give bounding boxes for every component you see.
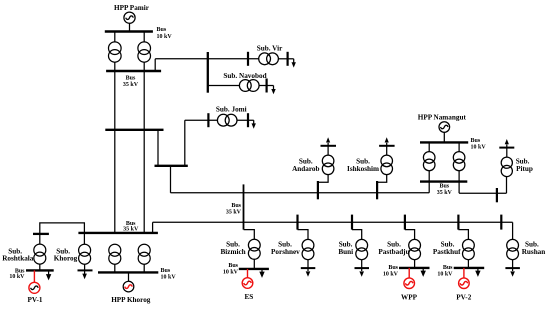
wire gen Pamir to bus [129, 23, 131, 31]
wire transformer T1 to bus35 Namangut [428, 171, 430, 182]
generator PV-2 [459, 278, 470, 289]
svg-text:PV-1: PV-1 [27, 296, 42, 304]
feeder wire Pamir to Khorog left [114, 71, 116, 233]
svg-text:WPP: WPP [401, 294, 418, 302]
label Bus 10 kV Roshtkala [9, 268, 25, 280]
svg-text:10 kV: 10 kV [161, 275, 177, 281]
tick Jomi right [247, 113, 249, 127]
wire jumper Khorog to Roshtkala [40, 223, 85, 234]
transformer Sub. Pastbadju [409, 239, 421, 259]
wire Ishkoshim elbow [377, 175, 387, 183]
svg-text:10 kV: 10 kV [437, 271, 453, 277]
svg-text:Bus: Bus [228, 263, 238, 269]
svg-text:Buni: Buni [338, 248, 353, 256]
load arrow Sub. Navobod [271, 86, 275, 95]
tick Andarob [317, 181, 319, 199]
dash Pitup [499, 147, 514, 149]
transformer Sub. Navobod [239, 80, 259, 92]
svg-text:Bizmich: Bizmich [221, 248, 246, 256]
svg-text:10 kV: 10 kV [9, 274, 25, 280]
label Sub. Pastbadju [378, 240, 409, 256]
feeder wire Pamir to Khorog right [143, 71, 145, 233]
svg-text:Pitup: Pitup [516, 165, 533, 173]
label Sub. Pitup [516, 158, 533, 173]
wire bar B down to trunk1 [170, 166, 172, 193]
transformer Sub. Roshtkala [34, 244, 46, 264]
wire Bizmich to bus10 [253, 259, 255, 269]
bus 10 kV Pastkhuf [454, 267, 485, 269]
svg-text:35 kV: 35 kV [226, 209, 242, 215]
wire Namangut left leg to trunk1 [428, 182, 430, 193]
tick Rushan [500, 215, 502, 230]
label Sub. Roshtkala [2, 247, 34, 262]
transformer Sub. Pastkhuf [463, 239, 475, 259]
wire T2 HPP Khorog to bus10 [143, 264, 145, 272]
wire Pastkhuf elbow [458, 230, 468, 240]
svg-text:HPP Namangut: HPP Namangut [418, 114, 467, 122]
wire Bizmich elbow [244, 230, 255, 240]
wire bus10 to transformer T1 Namangut [428, 142, 430, 151]
label Sub. Bizmich [221, 240, 246, 256]
load arrow Pastbadju [421, 268, 426, 277]
label Bus 35 kV Khorog [123, 221, 139, 233]
svg-text:HPP Pamir: HPP Pamir [114, 4, 150, 12]
transformer Sub. Rushan [507, 239, 519, 259]
svg-text:Bus: Bus [443, 265, 453, 271]
generator ES [242, 278, 253, 289]
tick Buni [351, 215, 353, 230]
svg-text:35 kV: 35 kV [123, 82, 139, 88]
generator HPP Pamir [124, 12, 135, 23]
transformer Sub. Khorog [79, 244, 91, 264]
transformer Sub. Porshnev [302, 239, 314, 259]
wire Ishkoshim up [386, 143, 388, 155]
label Sub. Buni [338, 240, 353, 256]
dash Sub. Khorog [78, 269, 93, 271]
transformer Sub. Buni [356, 239, 368, 259]
label Sub. Andarob [292, 157, 319, 173]
label Bus 10 kV Pamir [157, 27, 173, 40]
wire PV-2 stub [463, 268, 465, 278]
generator WPP [404, 278, 415, 289]
svg-text:HPP Khorog: HPP Khorog [111, 296, 151, 304]
tick Ishkoshim [376, 181, 378, 199]
dash Buni [355, 267, 370, 269]
label Bus 10 kV Bizmich [223, 263, 239, 276]
wire transformer T1 to bus35 [114, 62, 116, 71]
transformer T2 HPP Khorog [138, 244, 150, 264]
load arrow Pastkhuf [475, 268, 480, 277]
wire ES stub [247, 269, 249, 278]
svg-text:10 kV: 10 kV [223, 269, 239, 275]
wire Khorog bus to transformer [83, 233, 85, 244]
svg-text:Bus: Bus [161, 268, 171, 274]
generator PV-1 [29, 282, 132, 293]
bus 35 kV Namangut [420, 180, 467, 182]
wire PV-1 stub [33, 270, 35, 282]
svg-text:Pastbadju: Pastbadju [378, 248, 409, 256]
wire Vir line left [208, 58, 259, 60]
label Bus 35 kV Pamir [123, 75, 139, 88]
svg-text:Roshtkala: Roshtkala [2, 255, 34, 263]
gen arrow Sub. Andarob [326, 137, 330, 142]
wire Namangut right leg down [458, 182, 460, 194]
trunk wire 35 kV upper [171, 192, 430, 194]
transformer Sub. Ishkoshim [381, 155, 393, 175]
junction bar Vir/Navobod [207, 52, 209, 93]
load arrow Roshtkala [46, 270, 51, 280]
label Sub. Porshnev [271, 240, 300, 256]
load arrow Bizmich [259, 269, 264, 278]
tick Pitup [496, 188, 498, 202]
bus 10 kV HPP Khorog [98, 271, 158, 273]
wire bus10 to transformer T1 Pamir [114, 32, 116, 43]
wire Pamir to junction bar [155, 58, 208, 60]
label Sub. Ishkoshim [347, 157, 379, 173]
trunk wire 35 kV lower [153, 221, 513, 223]
load arrow Sub. Jomi [252, 120, 256, 129]
tick Pastkhuf [457, 215, 459, 230]
wire Pastbadju elbow [405, 230, 415, 240]
wire Buni down [361, 260, 363, 271]
svg-text:10 kV: 10 kV [383, 271, 399, 277]
tick Navobod [266, 79, 268, 93]
wire Rushan down [512, 260, 514, 271]
svg-text:Andarob: Andarob [292, 165, 319, 173]
transformer T2 HPP Namangut [453, 152, 465, 171]
wire Bizmich vertical trunk1-trunk2 [243, 184, 245, 229]
wire Vir line right [278, 58, 293, 60]
wire Pitup riser [506, 177, 508, 194]
transformer Sub. Vir [259, 53, 279, 65]
wire bus10 to transformer T2 Namangut [458, 142, 460, 151]
gen arrow Sub. Pitup [505, 139, 509, 144]
bus 10 kV Namangut [420, 141, 468, 143]
bus 10 kV Roshtkala [26, 269, 54, 271]
load arrow Sub. Khorog [82, 274, 87, 280]
wire transformer T2 to bus35 [143, 62, 145, 71]
load arrow Rushan [510, 271, 515, 276]
load arrow Sub. Vir [292, 59, 296, 68]
wire Navobod line right [259, 85, 273, 87]
transformer T1 HPP Pamir [109, 42, 122, 62]
svg-text:PV-2: PV-2 [456, 294, 471, 302]
bus 35 kV Khorog [78, 232, 157, 234]
wire Jomi line left [185, 119, 218, 121]
wire Jomi drop [184, 120, 186, 166]
wire Khorog transformer down [84, 264, 86, 274]
wire trunk2 left drop to Khorog bus [152, 222, 154, 233]
svg-text:Bus: Bus [388, 265, 398, 271]
tick Vir right [287, 52, 289, 66]
svg-text:Bus: Bus [471, 138, 481, 144]
label Bus 10 kV HPP Khorog [161, 268, 177, 281]
bus 10 kV Pastbadju [399, 267, 430, 269]
load arrow Porshnev [306, 271, 311, 276]
svg-text:Porshnev: Porshnev [271, 248, 300, 256]
tick Pastbadju [404, 215, 406, 230]
svg-text:Bus: Bus [126, 75, 136, 81]
svg-text:35 kV: 35 kV [123, 227, 139, 233]
bar B [155, 165, 188, 167]
transformer T1 HPP Khorog [109, 244, 121, 264]
transformer Sub. Jomi [217, 114, 237, 126]
wire Navobod line left [208, 85, 240, 87]
dash Ishkoshim [379, 145, 395, 147]
bar A tap on Pamir feeders [105, 129, 163, 131]
dash Andarob [321, 145, 337, 147]
label Bus 35 kV Namangut [437, 184, 453, 196]
wire Pastkhuf to bus10 [467, 260, 469, 268]
wire bar A to bar B [157, 130, 159, 166]
wire tap Pamir bus35 up [154, 59, 156, 71]
svg-text:Pastkhuf: Pastkhuf [433, 248, 461, 256]
generator HPP Khorog [31, 281, 134, 292]
transformer T2 HPP Pamir [138, 42, 151, 62]
wire bus10 to transformer T2 Pamir [143, 32, 145, 43]
wire Porshnev down [307, 260, 309, 271]
dash Rushan [505, 267, 520, 269]
svg-text:Sub. Vir: Sub. Vir [257, 44, 283, 52]
wire Roshtkala to bus10 [39, 264, 41, 270]
tick Jomi left [207, 113, 209, 127]
wire Pitup up [506, 144, 508, 157]
wire Roshtkala to transformer [39, 234, 41, 244]
svg-text:Bus: Bus [439, 184, 449, 190]
svg-text:Bus: Bus [157, 27, 167, 33]
wire gen Namangut to bus [443, 132, 445, 142]
label Bus 10 kV Pastkhuf [437, 265, 453, 278]
wire Porshnev elbow [298, 230, 309, 240]
load arrow Buni [359, 271, 364, 276]
svg-text:Bus: Bus [231, 203, 241, 209]
svg-text:10 kV: 10 kV [157, 34, 173, 40]
label Bus 10 kV Pastbadju [383, 265, 399, 278]
tick Porshnev [296, 215, 298, 230]
bus 10 kV Bizmich [239, 268, 269, 270]
wire WPP stub [408, 268, 410, 278]
label Bus 10 kV Namangut [471, 138, 487, 151]
wire transformer T2 to bus35 Namangut [458, 171, 460, 182]
gen arrow Sub. Ishkoshim [385, 137, 389, 142]
bus 10 kV HPP Pamir [105, 30, 153, 32]
dash Porshnev [301, 267, 316, 269]
label Sub. Pastkhuf [433, 240, 461, 256]
wire Rushan corner [512, 222, 514, 239]
bus Roshtkala 35 kV side [33, 233, 49, 235]
wire gen HPP Khorog stub [128, 272, 130, 281]
wire Buni elbow [352, 230, 362, 240]
transformer T1 HPP Namangut [423, 152, 435, 171]
transformer Sub. Pitup [501, 157, 512, 177]
generator HPP Namangut [439, 122, 450, 133]
svg-text:ES: ES [245, 293, 254, 301]
label Sub. Khorog [54, 247, 78, 262]
wire T1 HPP Khorog to bus10 [114, 264, 116, 272]
wire Andarob elbow [318, 175, 328, 183]
svg-text:10 kV: 10 kV [471, 145, 487, 151]
svg-text:Sub. Jomi: Sub. Jomi [216, 105, 247, 113]
wire Jomi line right [237, 119, 254, 121]
bus 35 kV HPP Pamir [106, 70, 161, 72]
label Sub. Rushan [522, 240, 546, 256]
svg-text:Khorog: Khorog [54, 255, 78, 263]
svg-text:Rushan: Rushan [522, 248, 546, 256]
svg-text:Sub. Navobod: Sub. Navobod [223, 72, 266, 80]
wire Andarob up [327, 143, 329, 155]
transformer Sub. Andarob [322, 155, 334, 175]
transformer Sub. Bizmich [248, 239, 260, 259]
label Bus 35 kV ring [226, 203, 242, 216]
svg-text:35 kV: 35 kV [437, 190, 453, 196]
tick Vir left [247, 52, 249, 66]
wire Namangut to Pitup [459, 192, 506, 194]
wire Pastbadju to bus10 [414, 260, 416, 268]
svg-text:Ishkoshim: Ishkoshim [347, 165, 379, 173]
